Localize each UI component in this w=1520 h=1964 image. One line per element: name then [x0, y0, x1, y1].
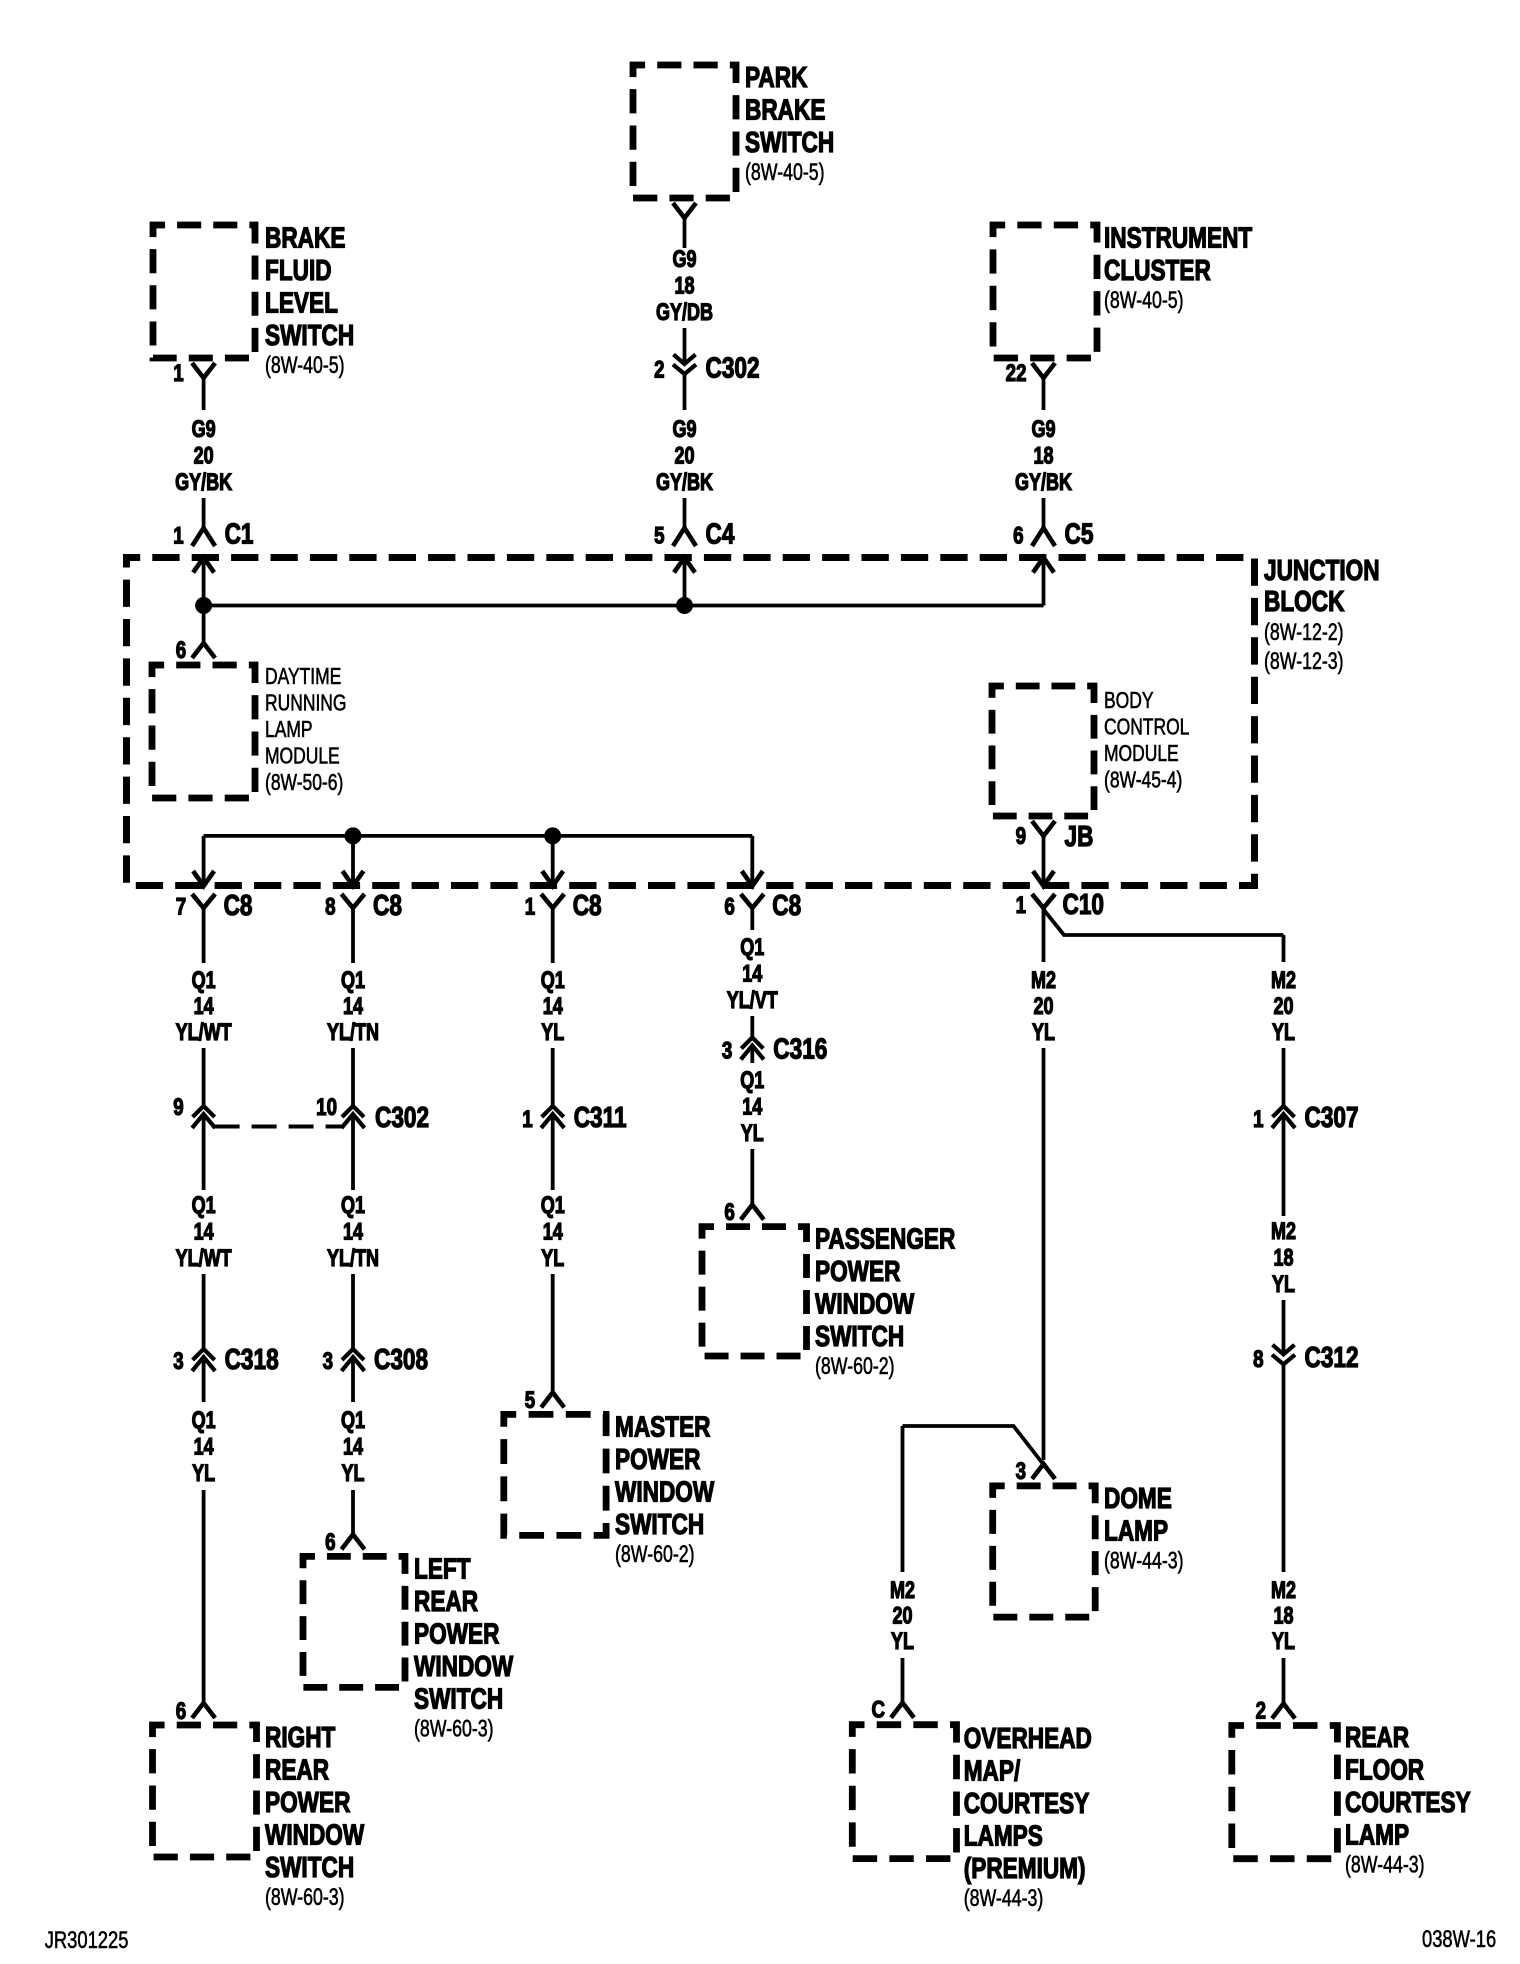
svg-text:COURTESY: COURTESY	[1345, 1785, 1471, 1818]
svg-text:WINDOW: WINDOW	[815, 1287, 915, 1320]
svg-text:YL: YL	[1272, 1020, 1295, 1046]
svg-text:SWITCH: SWITCH	[265, 1850, 354, 1883]
wire label G9 20 GY/BK (center)	[656, 417, 714, 496]
svg-text:YL: YL	[1032, 1020, 1055, 1046]
wire into C4	[683, 498, 687, 528]
wire label Q1 14 YL/TN (upper)	[327, 968, 379, 1046]
wire: bus drop to C8 pin 8	[351, 836, 355, 884]
component PASSENGER POWER WINDOW SWITCH (dashed box + label)	[702, 1222, 956, 1380]
svg-text:(8W-60-2): (8W-60-2)	[815, 1354, 895, 1380]
connector C1 (junction block pin, top edge)	[173, 517, 253, 573]
wire: internal window-switch bus (horizontal)	[204, 834, 753, 838]
svg-text:MASTER: MASTER	[615, 1410, 711, 1443]
svg-text:14: 14	[543, 994, 563, 1020]
wire label M2 18 YL (lower right)	[1271, 1578, 1296, 1655]
in-line connector C311 (double chevron up)	[522, 1100, 626, 1133]
wire: overhead branch horizontal + diagonal into dome fork	[903, 1426, 1055, 1478]
svg-text:BODY: BODY	[1104, 689, 1154, 714]
wire label G9 20 GY/BK (left)	[175, 417, 233, 496]
svg-text:14: 14	[742, 1094, 762, 1120]
wire to left rear switch	[351, 1490, 355, 1534]
svg-text:8: 8	[325, 893, 335, 920]
wire to C302 pin 10	[351, 1048, 355, 1106]
svg-text:OVERHEAD: OVERHEAD	[964, 1721, 1092, 1754]
wire to passenger switch	[750, 1149, 754, 1205]
svg-text:C8: C8	[224, 888, 253, 921]
svg-text:C307: C307	[1305, 1100, 1359, 1133]
svg-text:JUNCTION: JUNCTION	[1264, 553, 1380, 586]
dashed link between C302 halves	[215, 1125, 342, 1129]
svg-text:YL/TN: YL/TN	[327, 1246, 379, 1272]
component REAR FLOOR COURTESY LAMP (dashed box + label)	[1232, 1720, 1471, 1878]
wire: bus down to DRL module pin 6	[202, 606, 206, 643]
wire: C318 down	[202, 1357, 206, 1403]
svg-text:WINDOW: WINDOW	[615, 1475, 715, 1508]
component PARK BRAKE SWITCH (dashed box + label)	[633, 60, 834, 198]
svg-text:INSTRUMENT: INSTRUMENT	[1104, 221, 1252, 254]
pin 9 fork under BODY CONTROL MODULE + JB label	[1016, 819, 1094, 852]
wire: C311 down	[551, 1114, 555, 1191]
svg-text:18: 18	[1273, 1245, 1293, 1271]
wire to C311	[551, 1048, 555, 1106]
svg-text:14: 14	[194, 1434, 214, 1460]
svg-text:GY/BK: GY/BK	[1015, 470, 1073, 496]
component DOME LAMP (dashed box + label)	[993, 1481, 1184, 1617]
node at C1 bus junction	[195, 597, 212, 614]
svg-text:M2: M2	[1031, 968, 1056, 994]
svg-text:14: 14	[194, 994, 214, 1020]
wire: C302 to C4 (upper)	[683, 374, 687, 410]
svg-text:YL: YL	[341, 1461, 364, 1487]
svg-text:GY/BK: GY/BK	[175, 470, 233, 496]
svg-text:6: 6	[176, 1698, 186, 1725]
component RIGHT REAR POWER WINDOW SWITCH (dashed box + label)	[153, 1720, 365, 1910]
wire to C307	[1282, 1048, 1286, 1106]
in-line connector C316 (double chevron up)	[722, 1032, 827, 1065]
wire to C302 pin 9	[202, 1048, 206, 1106]
svg-text:3: 3	[722, 1037, 732, 1064]
svg-text:Q1: Q1	[192, 968, 216, 994]
wire into C1	[202, 498, 206, 528]
svg-text:POWER: POWER	[615, 1442, 701, 1475]
svg-text:G9: G9	[672, 417, 696, 443]
svg-text:1: 1	[173, 360, 183, 387]
svg-text:M2: M2	[1271, 1578, 1296, 1604]
wire: long run to right rear switch	[202, 1490, 206, 1703]
svg-text:1: 1	[1016, 892, 1026, 919]
svg-text:20: 20	[1273, 994, 1293, 1020]
svg-text:M2: M2	[890, 1578, 915, 1604]
pin 22 fork under INSTRUMENT CLUSTER	[1006, 360, 1055, 387]
svg-text:C8: C8	[573, 888, 602, 921]
svg-text:YL: YL	[891, 1629, 914, 1655]
component OVERHEAD MAP/COURTESY LAMPS (PREMIUM) (dashed box + label)	[852, 1721, 1092, 1911]
svg-text:WINDOW: WINDOW	[265, 1818, 365, 1851]
wire label Q1 14 YL (second)	[341, 1408, 365, 1487]
connector C4 (junction block pin, top edge)	[654, 517, 735, 573]
svg-text:FLOOR: FLOOR	[1345, 1753, 1424, 1786]
svg-text:YL: YL	[541, 1020, 564, 1046]
wire: C10 vertical down to dome lamp	[1042, 908, 1046, 962]
svg-text:6: 6	[724, 1199, 734, 1226]
svg-text:Q1: Q1	[541, 968, 565, 994]
svg-text:(8W-60-2): (8W-60-2)	[615, 1542, 695, 1568]
wire label Q1 14 YL (left)	[192, 1408, 216, 1487]
svg-text:YL: YL	[741, 1121, 764, 1147]
svg-text:SWITCH: SWITCH	[265, 318, 354, 351]
svg-text:1: 1	[522, 1106, 532, 1133]
connector C8 pin 6	[724, 888, 801, 921]
svg-text:YL/WT: YL/WT	[176, 1020, 232, 1046]
svg-text:GY/BK: GY/BK	[656, 470, 714, 496]
svg-text:SWITCH: SWITCH	[815, 1319, 904, 1352]
in-line connector C302 pin 2 (double chevron down)	[654, 351, 759, 384]
svg-text:9: 9	[173, 1094, 183, 1121]
wire: internal G9 bus (horizontal)	[204, 604, 1044, 608]
svg-text:14: 14	[543, 1219, 563, 1245]
wire: bus drop to C8 pin 1	[551, 836, 555, 884]
wire: C8 pin 1 down	[551, 908, 555, 963]
wire label M2 20 YL (overhead)	[890, 1578, 915, 1655]
svg-text:(8W-12-2): (8W-12-2)	[1264, 620, 1344, 646]
svg-text:DOME: DOME	[1104, 1481, 1172, 1514]
svg-text:18: 18	[1273, 1603, 1293, 1629]
svg-text:6: 6	[724, 893, 734, 920]
svg-text:(8W-44-3): (8W-44-3)	[964, 1885, 1044, 1911]
wire to C316	[750, 1016, 754, 1038]
pin 1 fork under BRAKE FLUID LEVEL SWITCH	[173, 360, 215, 387]
arrowhead into C8 pin 6	[742, 871, 763, 886]
svg-text:M2: M2	[1271, 968, 1296, 994]
wire: C10 diagonal branch to right	[1044, 910, 1284, 936]
svg-text:RUNNING: RUNNING	[265, 691, 346, 716]
component DAYTIME RUNNING LAMP MODULE (dashed box + label)	[152, 665, 346, 798]
svg-text:POWER: POWER	[265, 1785, 351, 1818]
pin C fork into OVERHEAD MAP/COURTESY LAMPS	[871, 1696, 914, 1723]
svg-text:Q1: Q1	[341, 1408, 365, 1434]
svg-text:M2: M2	[1271, 1219, 1296, 1245]
wire: bus drop to C8 pin 7	[202, 836, 206, 884]
wire to C318	[202, 1274, 206, 1349]
svg-text:Q1: Q1	[341, 1193, 365, 1219]
svg-text:C5: C5	[1065, 517, 1094, 550]
svg-text:Q1: Q1	[192, 1408, 216, 1434]
svg-text:C4: C4	[706, 517, 735, 550]
wire: C316 down	[750, 1045, 754, 1063]
arrowhead into C8 pin 8	[343, 871, 364, 886]
in-line connector C307 (double chevron up)	[1253, 1100, 1358, 1133]
svg-text:(8W-45-4): (8W-45-4)	[1104, 768, 1182, 793]
component INSTRUMENT CLUSTER (dashed box + label)	[993, 221, 1252, 358]
svg-text:RIGHT: RIGHT	[265, 1720, 335, 1753]
svg-text:YL/TN: YL/TN	[327, 1020, 379, 1046]
pin fork under PARK BRAKE SWITCH	[673, 203, 696, 218]
svg-text:(8W-44-3): (8W-44-3)	[1104, 1548, 1184, 1574]
pin 2 fork into REAR FLOOR COURTESY LAMP	[1256, 1697, 1295, 1724]
wire: long run to master switch	[551, 1274, 555, 1392]
svg-text:14: 14	[194, 1219, 214, 1245]
svg-text:G9: G9	[672, 247, 696, 273]
svg-text:(8W-60-3): (8W-60-3)	[414, 1716, 494, 1742]
svg-text:BRAKE: BRAKE	[745, 93, 825, 126]
pin 6 fork into LEFT REAR POWER WINDOW SWITCH	[325, 1529, 364, 1556]
pin 5 fork into MASTER POWER WINDOW SWITCH	[525, 1387, 564, 1414]
component MASTER POWER WINDOW SWITCH (dashed box + label)	[504, 1410, 715, 1568]
svg-text:POWER: POWER	[815, 1254, 901, 1287]
svg-text:20: 20	[674, 443, 694, 469]
svg-text:GY/DB: GY/DB	[656, 300, 713, 326]
svg-text:1: 1	[1253, 1106, 1263, 1133]
svg-text:8: 8	[1253, 1346, 1263, 1373]
svg-text:LEVEL: LEVEL	[265, 286, 338, 319]
svg-text:JR301225: JR301225	[45, 1925, 129, 1953]
wire label Q1 14 YL (passenger)	[740, 1068, 764, 1147]
arrowhead into C8 pin 7	[193, 871, 214, 886]
wire label Q1 14 YL/WT (upper)	[176, 968, 232, 1046]
wire: C5 stem down to bus corner	[1042, 559, 1046, 606]
wire to overhead lamps	[901, 1658, 905, 1703]
svg-text:C8: C8	[373, 888, 402, 921]
svg-text:LAMP: LAMP	[1104, 1514, 1168, 1547]
svg-text:SWITCH: SWITCH	[615, 1507, 704, 1540]
connector C5 (junction block pin, top edge)	[1013, 517, 1093, 573]
pin 6 fork into PASSENGER POWER WINDOW SWITCH	[724, 1199, 763, 1226]
component BRAKE FLUID LEVEL SWITCH (dashed box + label)	[153, 221, 354, 379]
svg-text:C308: C308	[374, 1342, 428, 1375]
svg-text:(8W-40-5): (8W-40-5)	[265, 352, 345, 378]
svg-text:YL/WT: YL/WT	[176, 1246, 232, 1272]
svg-text:5: 5	[525, 1387, 535, 1414]
wire: C8 pin 7 down	[202, 908, 206, 963]
svg-text:REAR: REAR	[414, 1584, 478, 1617]
svg-text:FLUID: FLUID	[265, 253, 332, 286]
svg-text:WINDOW: WINDOW	[414, 1649, 514, 1682]
node on bus above C8 pin 1	[544, 827, 561, 844]
arrowhead at junction block bottom edge (JB wire)	[1033, 871, 1054, 886]
svg-text:20: 20	[194, 443, 214, 469]
svg-text:YL: YL	[1272, 1629, 1295, 1655]
svg-text:2: 2	[654, 356, 664, 383]
wire to C308	[351, 1274, 355, 1349]
wire label G9 18 GY/BK (right)	[1015, 417, 1073, 496]
wire: C308 down	[351, 1357, 355, 1403]
svg-text:(8W-44-3): (8W-44-3)	[1345, 1852, 1425, 1878]
svg-text:20: 20	[892, 1603, 912, 1629]
svg-text:038W-16: 038W-16	[1422, 1924, 1496, 1952]
svg-text:BRAKE: BRAKE	[265, 221, 345, 254]
svg-text:(8W-60-3): (8W-60-3)	[265, 1885, 345, 1911]
svg-text:7: 7	[176, 893, 186, 920]
wire: brake fluid switch to C1	[202, 378, 206, 410]
svg-text:(PREMIUM): (PREMIUM)	[964, 1851, 1086, 1884]
svg-text:MODULE: MODULE	[265, 744, 340, 769]
svg-text:POWER: POWER	[414, 1617, 500, 1650]
svg-text:3: 3	[1016, 1458, 1026, 1485]
svg-text:6: 6	[1013, 522, 1023, 549]
svg-text:BLOCK: BLOCK	[1264, 584, 1345, 617]
svg-text:C318: C318	[225, 1342, 279, 1375]
wire: C4 stem down to bus node	[683, 559, 687, 606]
wire: C8 pin 8 down	[351, 908, 355, 963]
component BODY CONTROL MODULE (dashed box + label)	[992, 686, 1189, 816]
in-line connector C302 pin 10 (double chevron up)	[316, 1094, 429, 1134]
svg-text:(8W-40-5): (8W-40-5)	[1104, 287, 1184, 313]
svg-text:Q1: Q1	[341, 968, 365, 994]
svg-text:REAR: REAR	[1345, 1720, 1409, 1753]
svg-text:CONTROL: CONTROL	[1104, 715, 1189, 740]
svg-text:MODULE: MODULE	[1104, 742, 1179, 767]
wire: C307 down	[1282, 1114, 1286, 1217]
node on bus above C8 pin 8	[345, 827, 362, 844]
wire: park brake switch to C302	[683, 218, 687, 248]
connector C10 pin 1 (junction block bottom edge)	[1016, 887, 1104, 920]
svg-text:6: 6	[325, 1529, 335, 1556]
connector C8 pin 8	[325, 888, 402, 921]
svg-text:PASSENGER: PASSENGER	[815, 1222, 956, 1255]
svg-text:YL: YL	[541, 1246, 564, 1272]
svg-text:C10: C10	[1063, 887, 1104, 920]
svg-text:6: 6	[176, 637, 186, 664]
wire to rear floor lamp	[1282, 1658, 1286, 1704]
wire: C302 pin 10 down	[351, 1114, 355, 1191]
svg-text:14: 14	[742, 961, 762, 987]
svg-text:COURTESY: COURTESY	[964, 1786, 1090, 1819]
svg-text:14: 14	[343, 1219, 363, 1245]
svg-text:22: 22	[1006, 360, 1027, 387]
wire label G9 18 GY/DB	[656, 247, 713, 326]
in-line connector C302 pin 9 (double chevron up)	[173, 1094, 215, 1128]
wire: BCM pin 9 to C10	[1042, 836, 1046, 884]
svg-text:20: 20	[1033, 994, 1053, 1020]
svg-text:JB: JB	[1065, 819, 1094, 852]
svg-text:SWITCH: SWITCH	[414, 1682, 503, 1715]
svg-text:C: C	[871, 1696, 885, 1723]
in-line connector C318 (double chevron up)	[173, 1342, 278, 1375]
svg-text:Q1: Q1	[740, 935, 764, 961]
svg-text:C302: C302	[706, 351, 760, 384]
svg-text:C316: C316	[773, 1032, 827, 1065]
svg-text:CLUSTER: CLUSTER	[1104, 253, 1211, 286]
svg-text:C302: C302	[375, 1100, 429, 1133]
wire above C302	[683, 328, 687, 364]
wire: instrument cluster to C5	[1042, 378, 1046, 410]
wire: C1 stem down to bus node	[202, 559, 206, 606]
svg-text:C311: C311	[574, 1100, 627, 1133]
svg-text:(8W-50-6): (8W-50-6)	[265, 771, 343, 796]
svg-text:1: 1	[173, 522, 183, 549]
svg-text:5: 5	[654, 522, 664, 549]
svg-text:10: 10	[316, 1094, 337, 1121]
svg-text:3: 3	[323, 1348, 333, 1375]
wire label Q1 14 YL/WT (lower)	[176, 1193, 232, 1272]
arrowhead into C8 pin 1	[542, 871, 563, 886]
node at C4 bus junction	[676, 597, 693, 614]
svg-text:YL: YL	[192, 1461, 215, 1487]
svg-text:PARK: PARK	[745, 60, 808, 93]
svg-text:LAMP: LAMP	[1345, 1818, 1409, 1851]
connector C8 pin 1	[525, 888, 602, 921]
junction block (large dashed boundary) + label	[127, 553, 1380, 885]
wire label Q1 14 YL (master lower)	[541, 1193, 565, 1272]
svg-text:3: 3	[173, 1348, 183, 1375]
svg-text:Q1: Q1	[192, 1193, 216, 1219]
svg-text:YL/VT: YL/VT	[727, 988, 778, 1014]
svg-text:14: 14	[343, 994, 363, 1020]
svg-text:2: 2	[1256, 1697, 1266, 1724]
svg-text:9: 9	[1016, 823, 1026, 850]
in-line connector C308 (double chevron up)	[323, 1342, 428, 1375]
svg-text:REAR: REAR	[265, 1753, 329, 1786]
svg-text:LAMP: LAMP	[265, 718, 313, 743]
wire: C302 pin 9 down	[202, 1114, 206, 1191]
svg-text:(8W-12-3): (8W-12-3)	[1264, 649, 1344, 675]
wire label M2 20 YL (right branch)	[1271, 968, 1296, 1046]
pin 6 fork into RIGHT REAR POWER WINDOW SWITCH	[176, 1698, 215, 1725]
wire label M2 20 YL (dome branch)	[1031, 968, 1056, 1046]
wire: C8 pin 6 down	[750, 908, 754, 930]
wire label Q1 14 YL (master upper)	[541, 968, 565, 1046]
wire: C312 long run down	[1282, 1364, 1286, 1572]
svg-text:MAP/: MAP/	[964, 1754, 1021, 1787]
svg-text:YL: YL	[1272, 1272, 1295, 1298]
svg-text:C8: C8	[772, 888, 801, 921]
wire label Q1 14 YL/VT	[727, 935, 778, 1014]
svg-text:G9: G9	[1031, 417, 1055, 443]
svg-text:SWITCH: SWITCH	[745, 125, 834, 158]
svg-text:14: 14	[343, 1434, 363, 1460]
svg-text:LAMPS: LAMPS	[964, 1819, 1043, 1852]
component LEFT REAR POWER WINDOW SWITCH (dashed box + label)	[303, 1552, 514, 1742]
svg-text:Q1: Q1	[541, 1193, 565, 1219]
wire to C312	[1282, 1300, 1286, 1354]
pin 3 fork into DOME LAMP	[1016, 1458, 1055, 1485]
svg-text:DAYTIME: DAYTIME	[265, 665, 341, 690]
wire: bus drop to C8 pin 6	[750, 836, 754, 884]
svg-text:1: 1	[525, 893, 535, 920]
svg-text:C312: C312	[1305, 1340, 1359, 1373]
svg-text:G9: G9	[192, 417, 216, 443]
wire into C5	[1042, 498, 1046, 528]
wire label M2 18 YL (upper right)	[1271, 1219, 1296, 1298]
wire label Q1 14 YL/TN (lower)	[327, 1193, 379, 1272]
svg-text:18: 18	[674, 273, 694, 299]
pin 6 fork into DAYTIME RUNNING LAMP MODULE	[176, 637, 215, 664]
svg-text:LEFT: LEFT	[414, 1552, 471, 1585]
in-line connector C312 (double chevron down)	[1253, 1340, 1358, 1373]
svg-text:Q1: Q1	[740, 1068, 764, 1094]
connector C8 pin 7 (junction block bottom edge)	[176, 888, 253, 921]
svg-text:(8W-40-5): (8W-40-5)	[745, 160, 825, 186]
wire: overhead branch down	[901, 1426, 905, 1572]
wire: right branch down from corner	[1282, 935, 1286, 962]
svg-text:18: 18	[1033, 443, 1053, 469]
svg-text:C1: C1	[225, 517, 254, 550]
